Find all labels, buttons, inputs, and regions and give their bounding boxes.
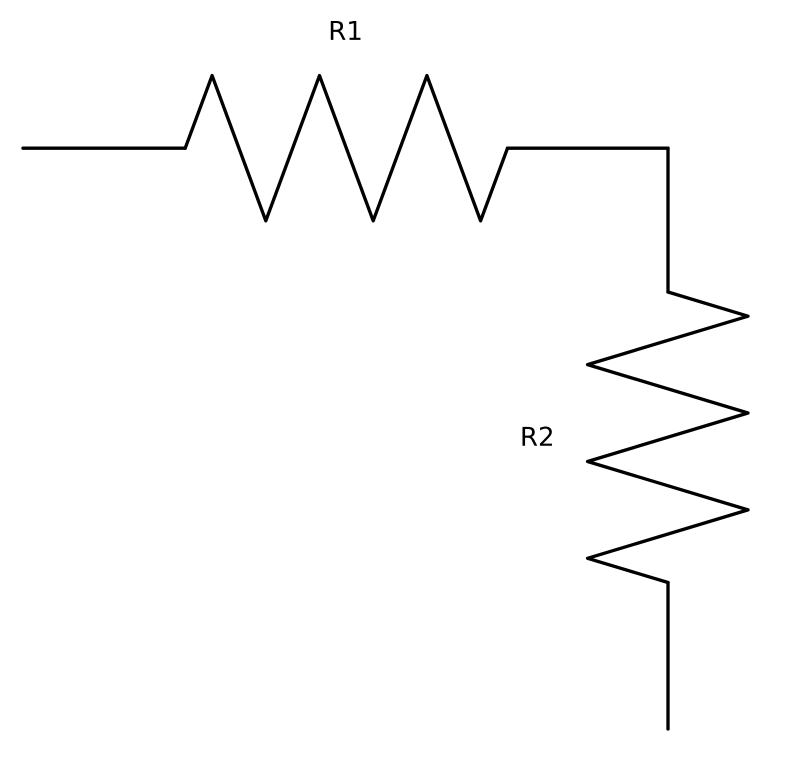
wire: vertical segment down from corner to R2 bbox=[666, 148, 669, 292]
wire: bottom lead below R2 bbox=[666, 583, 669, 730]
wire: left lead into R1 bbox=[23, 147, 185, 150]
resistor R1 bbox=[185, 76, 507, 221]
resistor R2 bbox=[588, 292, 748, 583]
label R2 bbox=[523, 427, 552, 446]
label R1 bbox=[331, 21, 361, 40]
wire: R1 right lead to top-right corner node bbox=[508, 147, 669, 150]
